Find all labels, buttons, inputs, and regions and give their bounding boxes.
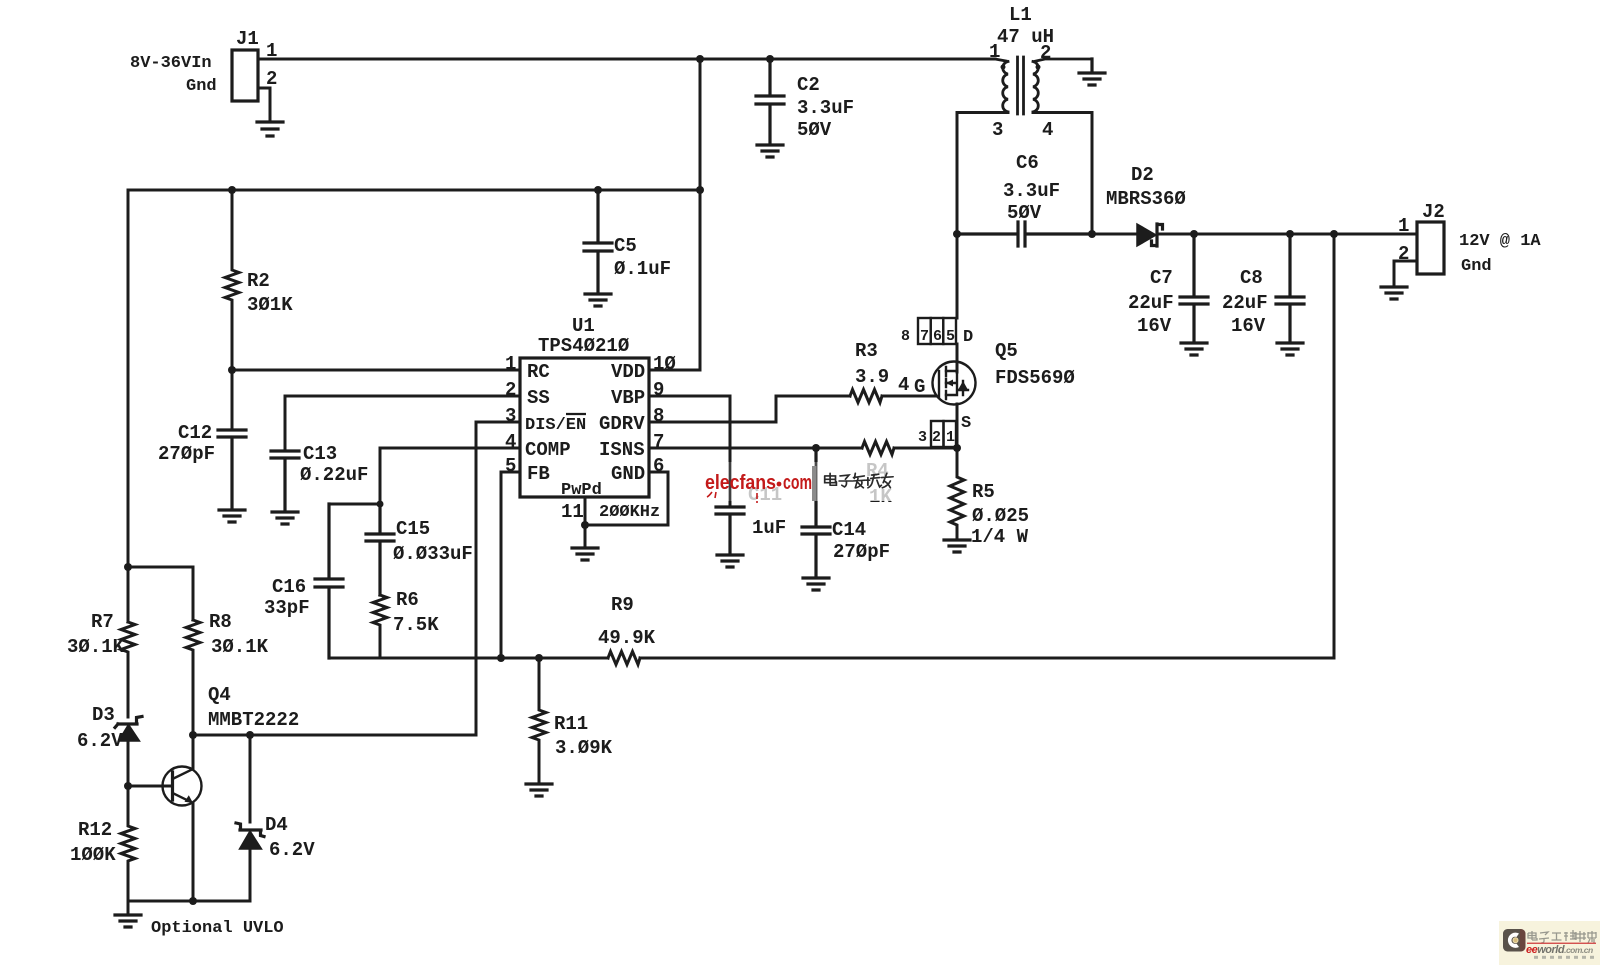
ground (J2 pin 2) [1381,287,1407,299]
wire switch node to Q5 drain [956,344,959,372]
wire FB pin5 [501,472,520,658]
wire UVLO bottom rail [128,900,250,903]
svg-text:C8: C8 [1240,267,1263,289]
svg-text:5ØV: 5ØV [797,119,832,141]
wire D4 branch down [249,735,252,822]
svg-text:ISNS: ISNS [599,439,645,461]
svg-text:1Ø: 1Ø [653,353,676,375]
svg-text:49.9K: 49.9K [598,627,656,649]
eeworld logo icon [1503,929,1525,952]
node (feedback sense joins output) [1330,230,1338,238]
node (D4 joins UVLO line) [246,731,254,739]
resistor R8 [186,620,200,735]
svg-text:3.3uF: 3.3uF [1003,180,1060,202]
svg-text:R7: R7 [91,611,114,633]
wire Q5 source [956,404,959,448]
svg-text:FB: FB [527,463,550,485]
svg-text:GND: GND [611,463,645,485]
node (emitter joins bottom rail) [189,897,197,905]
svg-text:TPS4Ø21Ø: TPS4Ø21Ø [538,335,629,357]
node (R11 joins FB rail) [535,654,543,662]
svg-text:6: 6 [653,455,664,477]
svg-text:VBP: VBP [611,387,645,409]
ground (J1 pin 2) [257,122,283,136]
svg-text:C7: C7 [1150,267,1173,289]
svg-text:R5: R5 [972,481,995,503]
svg-text:2: 2 [266,68,277,90]
svg-text:VDD: VDD [611,361,645,383]
svg-text:elecfans: elecfans [705,472,776,494]
svg-text:7: 7 [920,328,929,345]
resistor R5 [950,448,964,538]
connector J2 [1417,222,1444,274]
svg-text:D3: D3 [92,704,115,726]
svg-text:3.3uF: 3.3uF [797,97,854,119]
svg-text:COMP: COMP [525,439,571,461]
node (collector joins UVLO line) [189,731,197,739]
wire top input rail [282,58,995,61]
resistor R11 [532,658,546,782]
capacitor C8 [1276,234,1304,341]
eeworld logo chinese 电子工程世界 [1528,930,1596,943]
svg-text:3Ø1K: 3Ø1K [247,294,293,316]
svg-text:4: 4 [898,374,909,396]
resistor R3 [850,390,882,403]
wire L1 pin4 down [1033,113,1092,235]
wire gate [882,395,936,398]
svg-text:8: 8 [653,405,664,427]
svg-text:R12: R12 [78,819,112,841]
capacitor C11 [716,507,744,553]
svg-text:Gnd: Gnd [1461,257,1492,276]
wire R8 branch [128,567,193,620]
svg-text:12V @ 1A: 12V @ 1A [1459,232,1541,251]
svg-text:1/4 W: 1/4 W [971,526,1029,548]
inductor L1 primary winding [995,59,1008,112]
wire SS pin2 to C13 [285,396,520,449]
svg-text:GDRV: GDRV [599,413,645,435]
svg-text:C13: C13 [303,443,337,465]
capacitor C15 [366,504,394,595]
svg-text:C6: C6 [1016,152,1039,174]
node (rail2 to R2) [228,186,236,194]
svg-text:Ø.22uF: Ø.22uF [300,464,368,486]
svg-text:16V: 16V [1137,315,1172,337]
wire Q4 emitter down [192,803,195,901]
svg-text:9: 9 [653,379,664,401]
svg-text:6: 6 [933,328,942,345]
svg-text:J2: J2 [1422,201,1445,223]
wire FB rail to output sense [640,234,1334,658]
svg-text:C14: C14 [832,519,866,541]
wire J1 pin1 stub [258,58,282,61]
svg-text:3Ø.1K: 3Ø.1K [67,636,125,658]
watermark eeworld logo backdrop [1499,921,1600,965]
resistor R6 [373,595,387,658]
svg-text:27ØpF: 27ØpF [158,443,215,465]
node (rail2 meets VDD vertical) [696,186,704,194]
node (Q4 base branch) [124,782,132,790]
node (C8 joins output) [1286,230,1294,238]
transistor Q4 MMBT2222 [163,767,202,806]
svg-text:22uF: 22uF [1128,292,1174,314]
svg-text:1: 1 [266,40,277,62]
node (C2 branch on top rail) [766,55,774,63]
L1 polarity dot secondary [1036,65,1041,70]
wire ISNS pin7 [649,447,862,450]
wire Q4 collector up to R8 [192,735,195,769]
svg-text:C5: C5 [614,235,637,257]
svg-text:R2: R2 [247,270,270,292]
ground (R11) [526,784,552,796]
ground (C11) [717,555,743,567]
svg-text:1: 1 [946,429,955,446]
svg-text:6.2V: 6.2V [77,730,123,752]
transistor Q5 FDS5690 drain pad boxes (pins 8,7,6,5) [918,318,956,344]
node (COMP joins comp network) [377,501,384,508]
svg-text:Optional UVLO: Optional UVLO [151,919,284,938]
transistor Q5 FDS5690 [933,362,976,405]
svg-text:2: 2 [505,379,516,401]
svg-text:MMBT2222: MMBT2222 [208,709,299,731]
resistor R2 [225,190,239,428]
capacitor C16 [315,504,343,658]
node (FB vertical joins) [497,654,505,662]
watermark chinese 电子发烧友 [825,473,893,487]
svg-text:D2: D2 [1131,164,1154,186]
svg-text:L1: L1 [1009,4,1032,26]
svg-text:5: 5 [505,455,516,477]
svg-text:Gnd: Gnd [186,77,217,96]
node (switch node at C6 line) [953,230,961,238]
wire R4 to Q5 source [894,447,956,450]
zener diode D4 6.2V [236,823,264,901]
capacitor C13 [271,451,299,510]
ground (UVLO) [115,915,141,927]
svg-text:2: 2 [932,429,941,446]
wire DIS/EN pin3 down to UVLO [193,422,520,735]
svg-text:C2: C2 [797,74,820,96]
resistor R12 [121,786,135,901]
svg-text:R3: R3 [855,340,878,362]
ground (C7) [1181,343,1207,355]
node (C6 right at D2 line) [1088,230,1096,238]
resistor R7 [121,622,135,717]
svg-text:eeworld.com.cn: eeworld.com.cn [1526,944,1593,956]
node (R8 branch) [124,563,132,571]
connector J1 [232,50,258,101]
svg-text:DIS/EN: DIS/EN [525,416,586,435]
svg-text:3: 3 [992,119,1003,141]
svg-text:Q5: Q5 [995,340,1018,362]
svg-text:MBRS36Ø: MBRS36Ø [1106,188,1186,210]
svg-text:3: 3 [505,405,516,427]
svg-text:6.2V: 6.2V [269,839,315,861]
diode D2 MBRS360 [1092,224,1417,246]
svg-text:PwPd: PwPd [561,481,602,500]
node (PwPd joins GND return) [581,521,589,529]
svg-text:D4: D4 [265,814,288,836]
wire VDD vertical [699,59,702,370]
inductor L1 secondary winding [1033,59,1092,112]
svg-text:R9: R9 [611,594,634,616]
svg-text:8V-36VIn: 8V-36VIn [130,54,212,73]
svg-text:R6: R6 [396,589,419,611]
wire PwPd stub [584,497,587,546]
svg-text:SS: SS [527,387,550,409]
transistor Q5 source pad boxes (pins 3,2,1) [931,421,956,447]
svg-text:8: 8 [901,328,910,345]
ground (C12) [219,510,245,522]
wire GND pin6 return [585,472,668,525]
watermark separator bar [812,466,817,501]
node (rail2 to C5) [594,186,602,194]
svg-text:7: 7 [653,431,664,453]
ground (C5) [585,294,611,306]
svg-text:5: 5 [946,328,955,345]
L1 polarity dot primary [1001,65,1006,70]
svg-text:1uF: 1uF [752,517,786,539]
svg-text:C16: C16 [272,576,306,598]
ground (U1 PwPd) [572,548,598,560]
resistor R9 [608,652,640,665]
wire comp network top [329,503,380,506]
svg-text:U1: U1 [572,315,595,337]
wire FB node rail [329,657,608,660]
node (RC meets R2/C12) [228,366,236,374]
svg-text:R8: R8 [209,611,232,633]
svg-text:Ø.Ø33uF: Ø.Ø33uF [393,543,473,565]
wire ground stub UVLO [127,901,130,913]
node (C14 joins ISNS) [812,444,820,452]
wire J1 pin2 stub [258,88,270,120]
svg-text:27ØpF: 27ØpF [833,541,890,563]
svg-text:4: 4 [1042,119,1053,141]
capacitor C14 [802,448,830,576]
ground (C14) [803,578,829,590]
svg-text:3Ø.1K: 3Ø.1K [211,636,269,658]
svg-text:1: 1 [505,353,516,375]
zener diode D3 6.2V [115,717,142,787]
svg-text:1: 1 [989,41,1000,63]
IC U1 TPS40210 body [520,358,649,497]
svg-text:com: com [783,472,812,494]
svg-text:C12: C12 [178,422,212,444]
svg-text:11: 11 [561,501,584,523]
svg-text:4: 4 [505,431,516,453]
svg-text:2: 2 [1398,243,1409,265]
node (source/ISNS/R5) [953,444,961,452]
svg-text:G: G [914,376,925,398]
wire VBP pin9 to C11 [649,396,730,505]
svg-text:22uF: 22uF [1222,292,1268,314]
svg-text:3.Ø9K: 3.Ø9K [555,737,613,759]
capacitor C12 [218,430,246,508]
node (VDD branch on top rail) [696,55,704,63]
capacitor C2 [756,59,784,142]
svg-text:33pF: 33pF [264,597,310,619]
svg-text:2: 2 [1040,42,1051,64]
wire left UVLO vertical [127,190,130,622]
wire L1 pin3 to switch node [957,113,1008,319]
wire Q4 base [128,785,172,788]
wire second rail (RC/R2/C5/VDD rail) [128,189,700,192]
wire RC pin1 [232,369,520,372]
svg-text:S: S [961,414,971,433]
watermark elecfans backdrop [695,462,902,501]
svg-text:7.5K: 7.5K [393,614,439,636]
eeworld slogan dashes [1534,956,1594,959]
svg-text:FDS569Ø: FDS569Ø [995,367,1075,389]
ground (C8) [1277,343,1303,355]
ground (R5) [944,540,970,552]
svg-text:J1: J1 [236,28,259,50]
svg-text:C15: C15 [396,518,430,540]
L1 core bars [1018,57,1024,114]
node (C7 joins output) [1190,230,1198,238]
capacitor C6 [957,222,1092,246]
svg-text:D: D [963,328,973,347]
ground (C2) [757,145,783,157]
svg-text:1ØØK: 1ØØK [70,844,116,866]
wire J2 pin2 stub [1394,261,1417,285]
eeworld red underline [1527,943,1596,944]
wire C14 showing through watermark [815,462,818,501]
svg-text:Ø.1uF: Ø.1uF [614,258,671,280]
svg-text:3: 3 [918,429,927,446]
capacitor C5 [584,190,612,292]
svg-text:RC: RC [527,361,550,383]
svg-text:Q4: Q4 [208,684,231,706]
svg-text:1: 1 [1398,215,1409,237]
wire COMP pin4 to compensation network [380,448,520,504]
svg-text:16V: 16V [1231,315,1266,337]
wire C11 showing through watermark [729,462,732,501]
svg-text:5ØV: 5ØV [1007,202,1042,224]
svg-text:3.9: 3.9 [855,366,889,388]
wire GDRV pin8 jog [649,396,850,422]
resistor R4 [862,442,894,455]
capacitor C7 [1180,234,1208,341]
svg-text:R11: R11 [554,713,588,735]
svg-text:2ØØKHz: 2ØØKHz [599,503,660,522]
ground (C13) [272,512,298,524]
svg-text:Ø.Ø25: Ø.Ø25 [972,505,1029,527]
ground (L1 pin 2) [1079,59,1105,85]
wire VDD pin10 stub [649,369,700,372]
